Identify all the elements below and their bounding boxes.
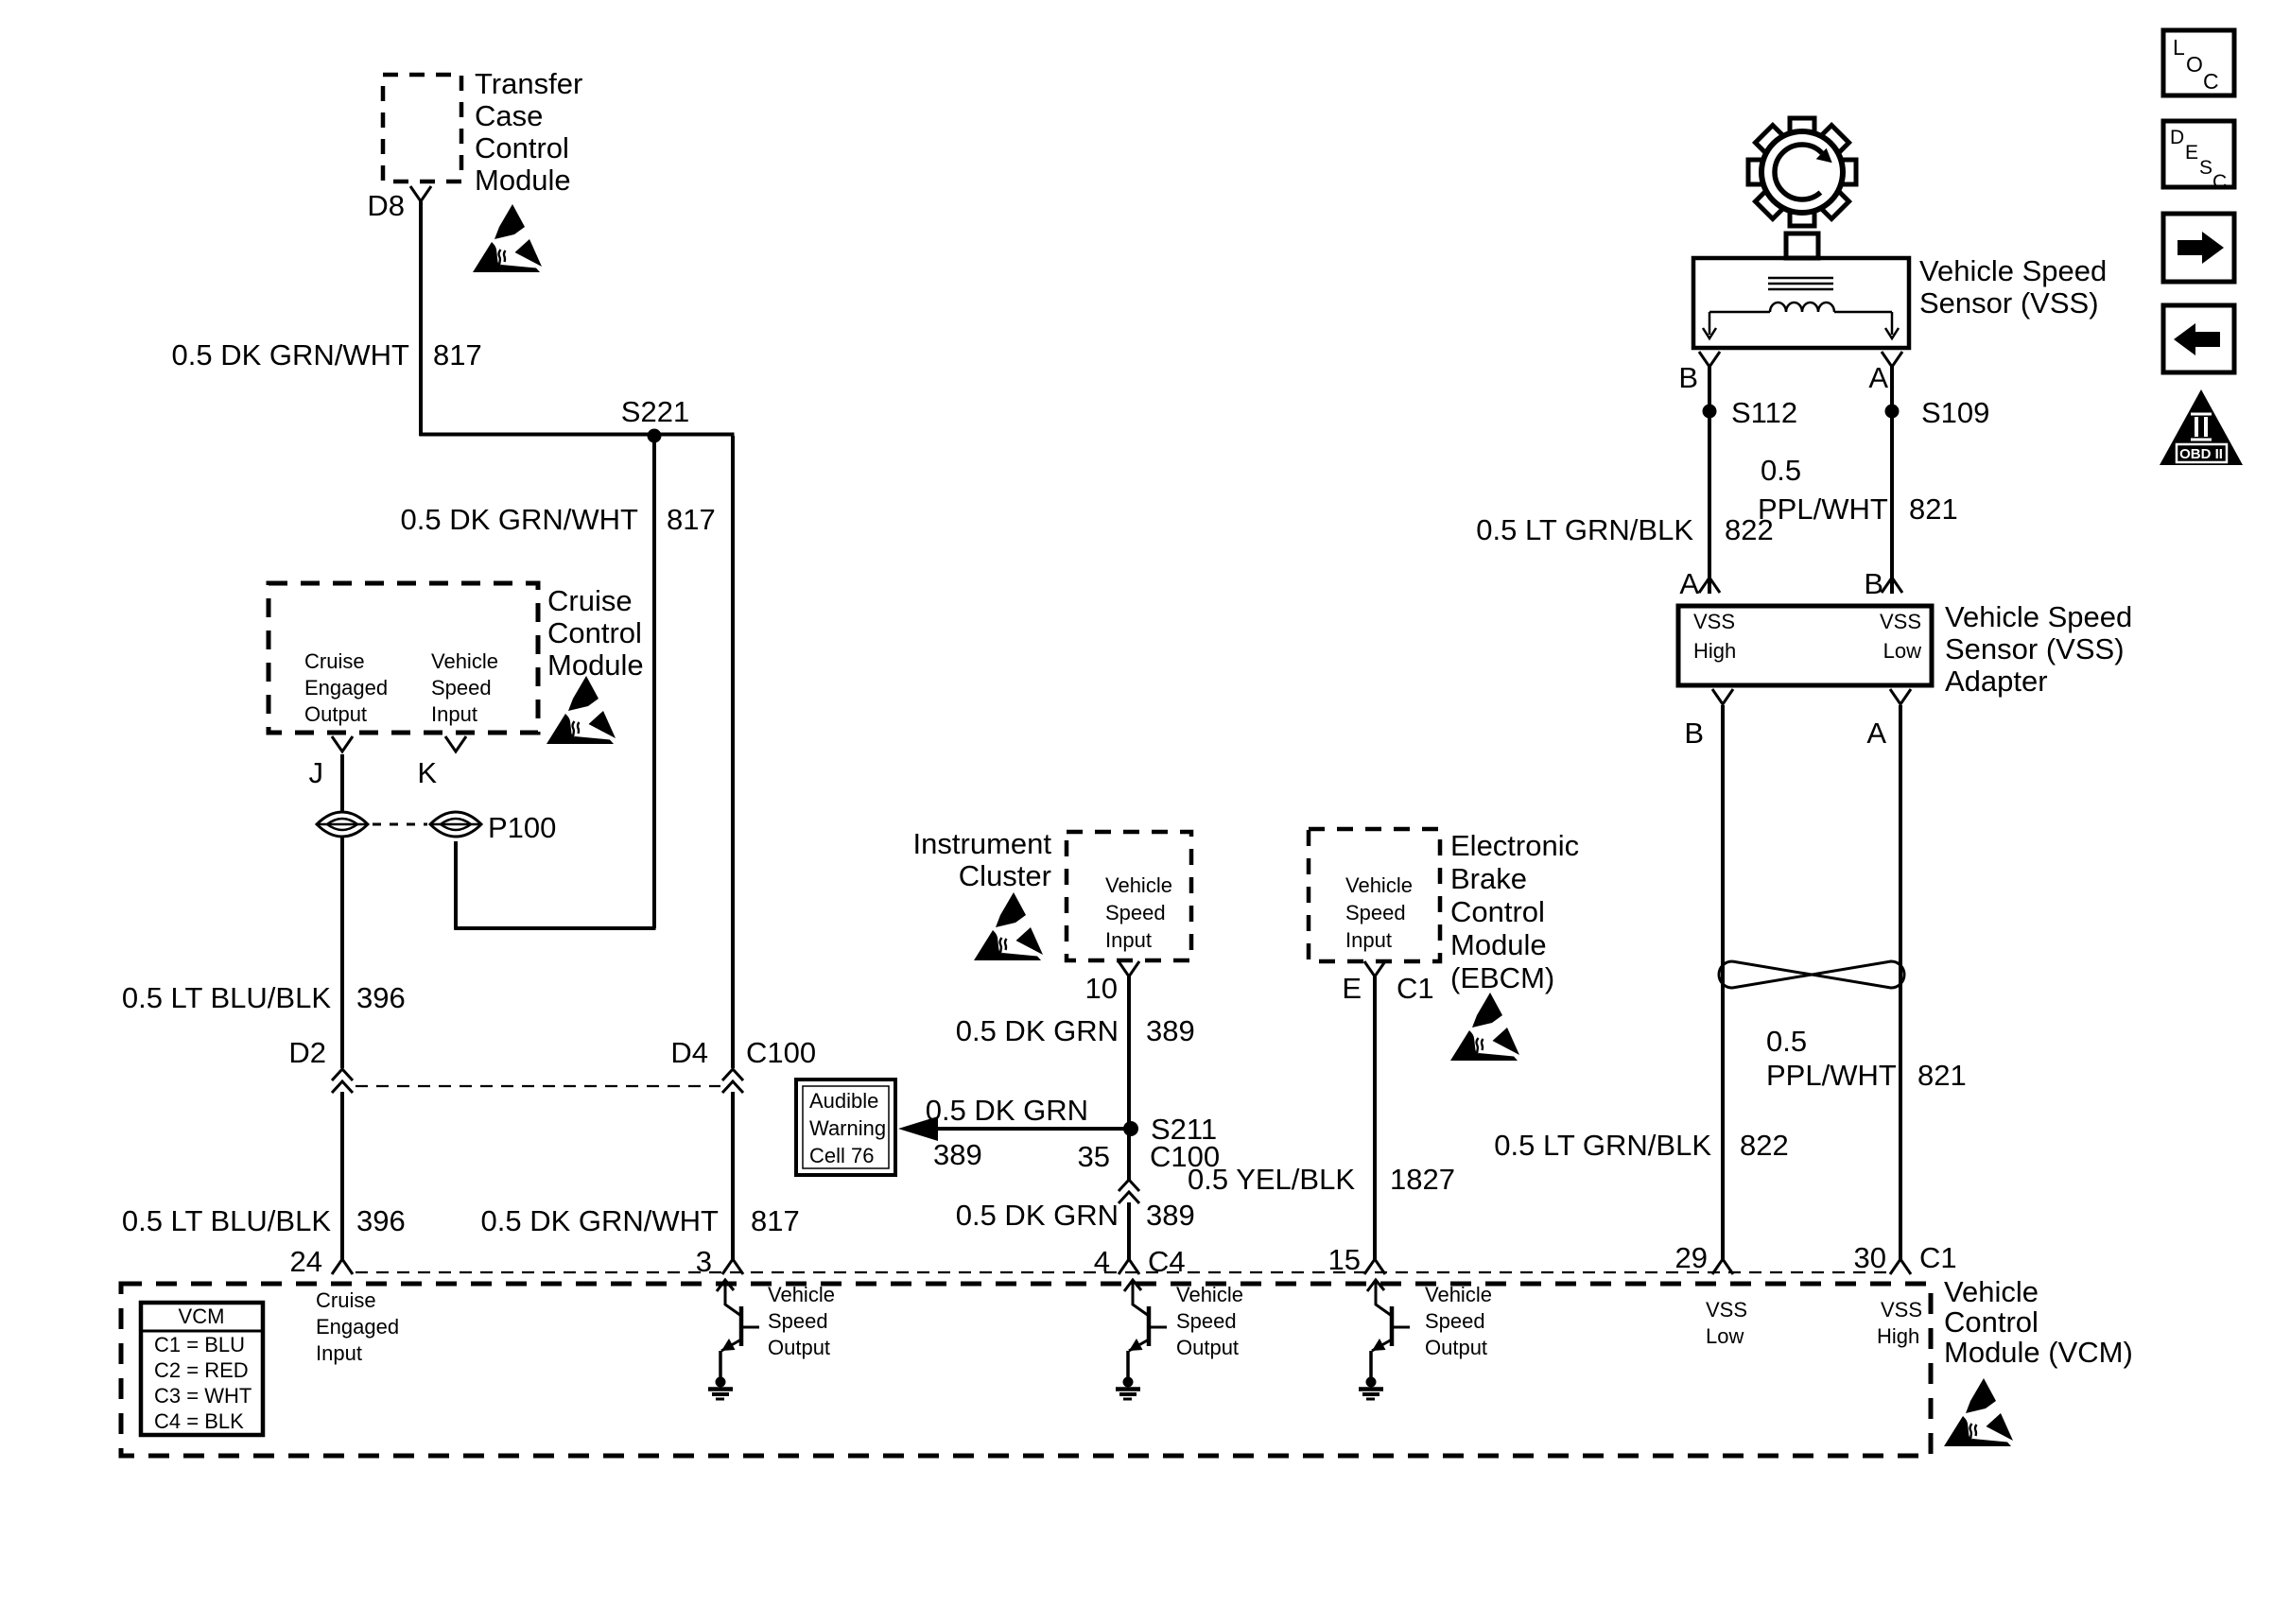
svg-text:1827: 1827 xyxy=(1390,1163,1455,1196)
svg-text:817: 817 xyxy=(751,1204,800,1237)
svg-text:0.5: 0.5 xyxy=(1766,1025,1807,1058)
svg-text:VSS: VSS xyxy=(1880,610,1921,633)
svg-text:389: 389 xyxy=(933,1138,982,1171)
svg-text:J: J xyxy=(309,756,324,789)
svg-text:O: O xyxy=(2186,52,2203,77)
svg-text:P100: P100 xyxy=(488,811,556,844)
svg-text:Module: Module xyxy=(475,164,571,197)
svg-text:C4 = BLK: C4 = BLK xyxy=(154,1409,244,1433)
svg-text:389: 389 xyxy=(1146,1199,1195,1232)
svg-text:30: 30 xyxy=(1854,1241,1886,1274)
svg-text:D: D xyxy=(2170,127,2184,148)
svg-text:0.5 LT BLU/BLK: 0.5 LT BLU/BLK xyxy=(122,1204,331,1237)
svg-text:3: 3 xyxy=(696,1245,712,1278)
svg-text:VSS: VSS xyxy=(1706,1298,1747,1322)
svg-text:35: 35 xyxy=(1078,1140,1110,1173)
svg-text:Cell 76: Cell 76 xyxy=(809,1144,874,1167)
svg-text:Output: Output xyxy=(1425,1336,1487,1359)
svg-text:OBD II: OBD II xyxy=(2179,446,2223,462)
svg-text:S: S xyxy=(2199,157,2212,179)
svg-text:A: A xyxy=(1868,361,1888,394)
svg-text:0.5 YEL/BLK: 0.5 YEL/BLK xyxy=(1188,1163,1355,1196)
svg-text:K: K xyxy=(417,756,437,789)
svg-text:Speed: Speed xyxy=(1176,1309,1237,1333)
svg-text:Vehicle Speed: Vehicle Speed xyxy=(1919,254,2107,287)
svg-text:C3 = WHT: C3 = WHT xyxy=(154,1384,252,1408)
svg-text:Audible: Audible xyxy=(809,1089,878,1113)
svg-text:Vehicle: Vehicle xyxy=(768,1283,835,1306)
svg-text:VSS: VSS xyxy=(1881,1298,1922,1322)
svg-text:VSS: VSS xyxy=(1693,610,1735,633)
svg-text:Speed: Speed xyxy=(431,676,492,700)
svg-text:0.5 DK GRN/WHT: 0.5 DK GRN/WHT xyxy=(481,1204,720,1237)
svg-text:Cruise: Cruise xyxy=(304,649,365,673)
svg-text:817: 817 xyxy=(667,503,716,536)
svg-text:PPL/WHT: PPL/WHT xyxy=(1766,1059,1897,1092)
svg-text:Control: Control xyxy=(1450,895,1545,928)
svg-text:D4: D4 xyxy=(670,1036,708,1069)
svg-text:0.5 DK GRN: 0.5 DK GRN xyxy=(956,1199,1119,1232)
svg-text:Instrument: Instrument xyxy=(913,827,1052,860)
svg-text:Speed: Speed xyxy=(1105,901,1166,924)
svg-text:C1 = BLU: C1 = BLU xyxy=(154,1333,245,1356)
svg-text:24: 24 xyxy=(290,1245,322,1278)
svg-text:A: A xyxy=(1866,717,1886,750)
svg-text:PPL/WHT: PPL/WHT xyxy=(1758,492,1888,526)
svg-text:VCM: VCM xyxy=(179,1304,225,1328)
svg-text:15: 15 xyxy=(1328,1243,1361,1276)
svg-text:0.5 DK GRN: 0.5 DK GRN xyxy=(956,1014,1119,1047)
svg-text:C: C xyxy=(2212,171,2227,193)
svg-text:C2 = RED: C2 = RED xyxy=(154,1358,249,1382)
svg-text:0.5 DK GRN/WHT: 0.5 DK GRN/WHT xyxy=(401,503,639,536)
svg-text:396: 396 xyxy=(356,1204,406,1237)
svg-text:0.5 LT BLU/BLK: 0.5 LT BLU/BLK xyxy=(122,981,331,1014)
svg-text:S112: S112 xyxy=(1731,396,1797,429)
svg-text:4: 4 xyxy=(1094,1245,1110,1278)
svg-text:Vehicle: Vehicle xyxy=(431,649,498,673)
svg-text:B: B xyxy=(1864,567,1883,600)
svg-text:Input: Input xyxy=(1105,928,1152,952)
svg-text:B: B xyxy=(1684,717,1704,750)
svg-text:Electronic: Electronic xyxy=(1450,829,1579,862)
svg-text:Input: Input xyxy=(316,1341,362,1365)
svg-text:Sensor (VSS): Sensor (VSS) xyxy=(1919,286,2099,320)
svg-text:396: 396 xyxy=(356,981,406,1014)
svg-text:Transfer: Transfer xyxy=(475,67,582,100)
svg-text:Output: Output xyxy=(1176,1336,1239,1359)
svg-text:Output: Output xyxy=(768,1336,830,1359)
svg-text:Vehicle: Vehicle xyxy=(1345,873,1413,897)
svg-text:Vehicle Speed: Vehicle Speed xyxy=(1945,600,2132,633)
svg-text:E: E xyxy=(2185,142,2198,164)
svg-text:D8: D8 xyxy=(367,189,405,222)
svg-text:Speed: Speed xyxy=(768,1309,828,1333)
svg-text:Vehicle: Vehicle xyxy=(1425,1283,1492,1306)
svg-text:Case: Case xyxy=(475,99,543,132)
svg-text:B: B xyxy=(1678,361,1698,394)
svg-text:Sensor (VSS): Sensor (VSS) xyxy=(1945,632,2125,665)
svg-text:Module: Module xyxy=(1450,928,1547,961)
svg-text:821: 821 xyxy=(1909,492,1958,526)
svg-text:Module: Module xyxy=(547,648,644,682)
svg-text:Engaged: Engaged xyxy=(304,676,388,700)
svg-text:Module (VCM): Module (VCM) xyxy=(1944,1336,2133,1369)
svg-text:Control: Control xyxy=(475,131,569,164)
svg-text:Vehicle: Vehicle xyxy=(1105,873,1172,897)
svg-text:(EBCM): (EBCM) xyxy=(1450,961,1554,994)
svg-text:822: 822 xyxy=(1725,513,1774,546)
svg-text:E: E xyxy=(1342,972,1362,1005)
svg-text:389: 389 xyxy=(1146,1014,1195,1047)
svg-text:Cruise: Cruise xyxy=(316,1288,376,1312)
svg-text:L: L xyxy=(2173,35,2185,60)
svg-text:Vehicle: Vehicle xyxy=(1944,1275,2039,1308)
svg-text:0.5 DK GRN: 0.5 DK GRN xyxy=(926,1094,1088,1127)
svg-text:Speed: Speed xyxy=(1345,901,1406,924)
svg-text:0.5 LT GRN/BLK: 0.5 LT GRN/BLK xyxy=(1476,513,1693,546)
svg-text:29: 29 xyxy=(1675,1241,1708,1274)
svg-text:Input: Input xyxy=(431,702,477,726)
svg-text:Vehicle: Vehicle xyxy=(1176,1283,1243,1306)
svg-text:0.5 DK GRN/WHT: 0.5 DK GRN/WHT xyxy=(172,338,410,371)
svg-text:0.5 LT GRN/BLK: 0.5 LT GRN/BLK xyxy=(1494,1129,1711,1162)
svg-text:Low: Low xyxy=(1883,639,1921,663)
svg-text:Warning: Warning xyxy=(809,1116,886,1140)
svg-text:Engaged: Engaged xyxy=(316,1315,399,1339)
svg-text:C: C xyxy=(2203,69,2219,94)
svg-text:Speed: Speed xyxy=(1425,1309,1485,1333)
svg-text:Adapter: Adapter xyxy=(1945,665,2048,698)
svg-text:Cruise: Cruise xyxy=(547,584,633,617)
svg-text:817: 817 xyxy=(433,338,482,371)
svg-text:High: High xyxy=(1693,639,1736,663)
svg-text:C100: C100 xyxy=(746,1036,816,1069)
svg-text:A: A xyxy=(1679,567,1699,600)
svg-text:Control: Control xyxy=(547,616,642,649)
svg-text:0.5: 0.5 xyxy=(1761,454,1801,487)
svg-text:822: 822 xyxy=(1740,1129,1789,1162)
svg-text:C1: C1 xyxy=(1397,972,1434,1005)
svg-text:C4: C4 xyxy=(1148,1245,1186,1278)
svg-text:Low: Low xyxy=(1706,1324,1744,1348)
svg-text:821: 821 xyxy=(1917,1059,1967,1092)
svg-text:High: High xyxy=(1877,1324,1919,1348)
svg-text:Cluster: Cluster xyxy=(959,859,1051,892)
svg-text:S221: S221 xyxy=(621,395,689,428)
svg-text:S109: S109 xyxy=(1921,396,1989,429)
svg-text:Control: Control xyxy=(1944,1305,2039,1339)
svg-text:Input: Input xyxy=(1345,928,1392,952)
svg-text:C1: C1 xyxy=(1919,1241,1957,1274)
svg-text:D2: D2 xyxy=(288,1036,326,1069)
svg-text:Brake: Brake xyxy=(1450,862,1527,895)
svg-text:10: 10 xyxy=(1085,972,1118,1005)
svg-text:Output: Output xyxy=(304,702,367,726)
